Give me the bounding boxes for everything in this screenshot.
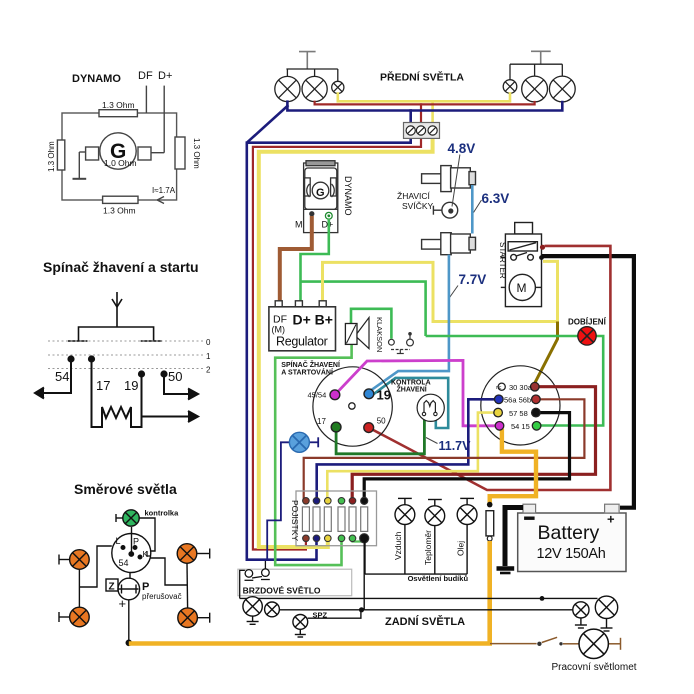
svg-text:30 30a: 30 30a [509,383,533,392]
svg-text:P: P [133,537,139,547]
svg-text:19: 19 [124,378,138,393]
svg-text:56a 56b: 56a 56b [504,396,531,405]
svg-text:STARTER: STARTER [498,242,507,279]
svg-text:DYNAMO: DYNAMO [72,73,121,85]
svg-text:54: 54 [55,369,69,384]
svg-text:M: M [295,220,303,230]
svg-text:I≈1.7A: I≈1.7A [152,186,176,195]
svg-text:45/54: 45/54 [308,391,327,400]
svg-text:D+: D+ [322,220,334,230]
svg-text:G: G [316,187,325,199]
svg-text:DYNAMO: DYNAMO [343,176,353,216]
svg-text:Olej: Olej [456,541,466,556]
svg-text:+: + [119,596,127,611]
svg-text:Pracovní světlomet: Pracovní světlomet [552,662,637,673]
svg-text:(M): (M) [272,325,286,335]
svg-text:M: M [517,281,527,295]
svg-text:POJISTKY: POJISTKY [290,500,300,541]
svg-text:ZADNÍ SVĚTLA: ZADNÍ SVĚTLA [385,615,465,628]
svg-text:1.3 Ohm: 1.3 Ohm [103,206,136,216]
svg-text:Battery: Battery [538,522,600,544]
svg-text:1.3 Ohm: 1.3 Ohm [102,100,135,110]
svg-text:Regulator: Regulator [276,335,328,349]
svg-text:4.8V: 4.8V [448,141,476,156]
svg-text:BRZDOVÉ SVĚTLO: BRZDOVÉ SVĚTLO [243,585,321,596]
svg-text:50: 50 [377,417,386,426]
svg-text:Spínač žhavení a startu: Spínač žhavení a startu [43,259,199,275]
svg-text:ŽHAVICÍ: ŽHAVICÍ [397,191,431,201]
svg-text:přerušovač: přerušovač [142,592,182,601]
svg-text:0: 0 [206,338,211,347]
svg-text:KLAKSON: KLAKSON [375,317,384,352]
svg-text:12V 150Ah: 12V 150Ah [537,546,606,562]
svg-text:KONTROLA: KONTROLA [391,380,431,387]
svg-text:54: 54 [119,558,129,568]
svg-text:D+: D+ [158,70,172,82]
svg-text:L: L [116,536,121,546]
svg-text:DOBÍJENÍ: DOBÍJENÍ [568,318,607,327]
svg-text:11.7V: 11.7V [439,439,472,453]
svg-text:19: 19 [377,388,391,403]
svg-text:7.7V: 7.7V [459,272,487,287]
svg-text:Teploměr: Teploměr [423,530,433,565]
svg-text:kontrolka: kontrolka [145,509,180,518]
svg-text:1.0 Ohm: 1.0 Ohm [104,158,137,168]
svg-text:A STARTOVÁNÍ: A STARTOVÁNÍ [281,367,334,376]
svg-text:1: 1 [206,352,211,361]
svg-text:1.3 Ohm: 1.3 Ohm [192,138,201,169]
svg-text:1.3 Ohm: 1.3 Ohm [47,141,56,172]
svg-text:50: 50 [168,369,182,384]
svg-text:Osvětlení budíků: Osvětlení budíků [408,574,469,583]
svg-text:17: 17 [96,378,110,393]
svg-text:DF: DF [138,70,153,82]
svg-text:SPZ: SPZ [313,611,328,620]
svg-text:nc: nc [496,385,502,391]
svg-text:2: 2 [206,366,211,375]
svg-text:D+ B+: D+ B+ [293,312,333,328]
svg-text:Vzduch: Vzduch [393,531,403,560]
svg-text:57 58: 57 58 [509,409,528,418]
svg-text:PŘEDNÍ SVĚTLA: PŘEDNÍ SVĚTLA [380,71,464,84]
svg-text:+: + [607,512,615,527]
svg-text:K: K [143,550,149,559]
svg-text:ŽHAVENÍ: ŽHAVENÍ [397,385,428,394]
svg-text:SVÍČKY: SVÍČKY [402,201,434,211]
svg-text:Směrové světla: Směrové světla [74,481,177,497]
svg-text:54 15: 54 15 [511,422,530,431]
svg-text:17: 17 [317,417,326,426]
svg-text:SPÍNAČ ŽHAVENÍ: SPÍNAČ ŽHAVENÍ [281,360,341,369]
svg-text:6.3V: 6.3V [482,191,510,206]
svg-text:Z: Z [109,582,115,593]
